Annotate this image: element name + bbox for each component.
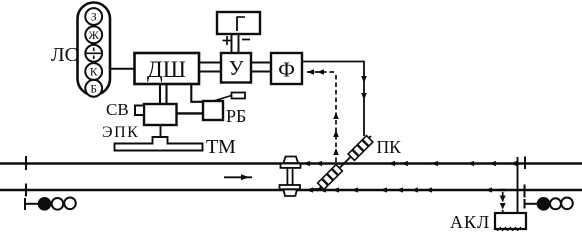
rail current arrows bottom rail: [306, 187, 492, 192]
wire DSh to EPK double: [159, 84, 161, 104]
wire DSh to U double: [199, 61, 221, 63]
rail bottom: [0, 189, 582, 191]
polarity plus: [223, 36, 232, 45]
AKL box: [495, 213, 526, 229]
decoder box DSh: [135, 53, 200, 84]
polarity minus: [242, 39, 250, 41]
svg-text:ЛС: ЛС: [51, 44, 78, 66]
wire battery to U: [231, 34, 233, 53]
wire U to F double: [251, 61, 271, 63]
svg-text:Ж: Ж: [89, 30, 100, 42]
lamp K: [85, 63, 102, 80]
lamp B: [85, 80, 102, 97]
AKL solid wire: [517, 157, 519, 213]
AKL box hatch: [497, 227, 521, 231]
lamp Z: [85, 8, 102, 25]
wire LS to DSh: [110, 68, 134, 70]
svg-text:СВ: СВ: [106, 100, 129, 119]
receiver coil PK upper: [348, 136, 373, 161]
whistle SV box: [135, 106, 144, 116]
wheelset: [280, 157, 301, 197]
insulated joint right bottom rail: [524, 185, 526, 198]
wire diagonal coil bracket: [317, 136, 371, 191]
amplifier box U: [221, 53, 251, 83]
brake main TM pipe: [115, 137, 203, 151]
svg-text:Ф: Ф: [278, 58, 295, 82]
svg-text:РБ: РБ: [226, 106, 246, 126]
EPK box: [144, 104, 177, 125]
svg-text:У: У: [229, 56, 244, 80]
vigilance button RB: [203, 101, 223, 120]
lamp KZh: [85, 45, 102, 62]
wire DSh to RB: [191, 84, 203, 102]
svg-text:К: К: [90, 67, 98, 79]
svg-text:ПК: ПК: [377, 137, 402, 157]
svg-text:АКЛ: АКЛ: [450, 212, 490, 231]
wire dashed rail to filter: [304, 72, 336, 162]
locomotive signal LS housing: [78, 3, 111, 96]
svg-text:Б: Б: [90, 83, 97, 95]
right dwarf signal: [525, 198, 573, 210]
RB handle knob: [232, 93, 246, 99]
power source box G: [217, 12, 260, 34]
svg-text:ДШ: ДШ: [147, 57, 186, 82]
wire filter to upper coil: [303, 62, 364, 137]
left dwarf signal: [25, 198, 76, 211]
insulated joint left top rail: [25, 156, 27, 170]
filter box F: [271, 53, 302, 84]
wire EPK to TM: [160, 125, 162, 137]
wire EPK to RB: [177, 112, 204, 114]
rail top: [0, 162, 582, 164]
lamp Zh: [85, 26, 102, 43]
svg-text:ТМ: ТМ: [206, 136, 236, 158]
rail current arrows top rail: [303, 161, 517, 166]
svg-text:З: З: [91, 12, 97, 24]
svg-text:ЭПК: ЭПК: [102, 124, 139, 141]
travel direction arrow: [224, 174, 252, 180]
receiver coil PK lower: [318, 165, 343, 190]
AKL dashed feed wire: [502, 192, 504, 212]
RB handle lever: [214, 95, 234, 101]
insulated joint left bottom rail: [25, 184, 27, 197]
insulated joint right top rail: [524, 157, 526, 170]
